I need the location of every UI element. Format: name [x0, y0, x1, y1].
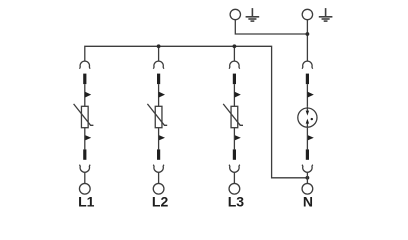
svg-text:L1: L1	[78, 193, 95, 209]
svg-text:L3: L3	[228, 193, 245, 209]
svg-text:L2: L2	[152, 193, 169, 209]
svg-text:N: N	[303, 193, 313, 209]
